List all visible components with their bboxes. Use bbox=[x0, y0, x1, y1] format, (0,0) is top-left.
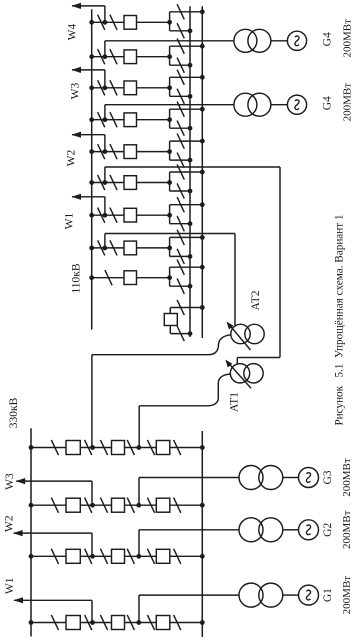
110kV bay 9 breaker bbox=[124, 271, 137, 285]
110kV bay 5 bypass disconnector bbox=[98, 144, 105, 159]
110kV bay 4 bracket wire bbox=[169, 109, 171, 128]
110kV bus-coupler breaker bbox=[164, 314, 177, 326]
svg-text:G1: G1 bbox=[322, 588, 334, 602]
110kV bay 9 wire bbox=[92, 277, 124, 279]
G1 generator wire bbox=[283, 594, 299, 596]
AT1 330kV side wire bbox=[139, 374, 230, 406]
110kV bay 1 busbar-A disconnector branch bbox=[170, 30, 190, 32]
line W3 (330kV) wire bbox=[91, 481, 93, 505]
330kV string 4 disconnectors bbox=[51, 615, 58, 630]
110kV bay 6 bus junction bbox=[89, 180, 94, 185]
110kV bay 9 bus junction bbox=[89, 275, 94, 280]
svg-text:Рисунок 5.1 Упрощённая схем: Рисунок 5.1 Упрощённая схема. Вариант 1 bbox=[334, 214, 346, 425]
110kV bay 5 branch node bbox=[167, 149, 172, 154]
110kV bay 3 bracket wire bbox=[169, 77, 171, 96]
110kV bay 4 busbar-A disconnector branch bbox=[170, 127, 190, 129]
svg-text:200МВт: 200МВт bbox=[341, 458, 353, 497]
330kV string 3 wire bbox=[31, 555, 202, 557]
110kV bay 6 branch node bbox=[167, 180, 172, 185]
110kV bus-coupler bay wire bbox=[169, 308, 171, 334]
G3 unit wire bbox=[138, 478, 140, 506]
generator G3 bbox=[299, 468, 319, 488]
G2 unit wire bbox=[138, 530, 140, 557]
110kV bay 4 line disconnector bbox=[110, 112, 117, 127]
110kV bay 6 wire bbox=[92, 182, 124, 184]
svg-text:W3: W3 bbox=[4, 473, 16, 490]
svg-text:G3: G3 bbox=[322, 470, 334, 484]
svg-text:110кВ: 110кВ bbox=[71, 263, 83, 293]
110kV bay 1 bracket wire bbox=[169, 12, 171, 31]
svg-text:G4: G4 bbox=[321, 96, 333, 110]
330kV string 3 bus junctions bbox=[29, 554, 34, 559]
110kV bay 4 tap node bbox=[103, 117, 108, 122]
line W1 (330kV) wire bbox=[91, 600, 93, 622]
110kV bay 2 bracket wire bbox=[169, 46, 171, 65]
G1 unit wire bbox=[138, 595, 140, 622]
110kV bay 6 busbar-B disconnector branch bbox=[170, 171, 203, 173]
110kV bay 7 tap node bbox=[103, 213, 108, 218]
110kV bay 9 busbar-A disconnector branch bbox=[170, 285, 190, 287]
AT2 110kV feeder wire bbox=[104, 234, 106, 248]
G3 generator wire bbox=[283, 477, 299, 479]
110kV bay 8 bracket wire bbox=[169, 237, 171, 256]
110kV bay 4 branch node bbox=[167, 117, 172, 122]
110kV bay 4 busbar-B disconnector branch bbox=[170, 108, 203, 110]
line W1 (110kV) wire bbox=[104, 197, 106, 215]
110kV bay 4 wire bbox=[92, 119, 124, 121]
110kV bay 9 disconnector bbox=[105, 270, 112, 285]
line W3 (330kV) arrow bbox=[16, 478, 26, 484]
110kV bay 8 breaker bbox=[124, 241, 137, 255]
110kV bay 3 wire bbox=[92, 87, 124, 89]
autotransformer AT1 bbox=[230, 364, 249, 383]
line W4 (110kV) wire bbox=[104, 6, 106, 22]
110kV bay 8 line disconnector bbox=[110, 240, 117, 255]
110kV bay 9 bracket wire bbox=[169, 267, 171, 286]
110kV bay 8 busbar-A disconnector branch bbox=[170, 255, 190, 257]
line W2 (330kV) wire bbox=[91, 533, 93, 556]
110kV bay 2 line disconnector bbox=[110, 49, 117, 64]
110kV bay 6 breaker bbox=[124, 176, 137, 190]
G4 unit transformer bbox=[234, 93, 257, 116]
G1 unit transformer bbox=[239, 583, 263, 607]
svg-text:200МВт: 200МВт bbox=[341, 510, 353, 549]
110kV bus-coupler busbar-A branch bbox=[170, 333, 190, 335]
AT1 regulation arrow bbox=[227, 362, 251, 389]
110kV bay 1 bypass disconnector bbox=[98, 15, 105, 30]
svg-text:W1: W1 bbox=[64, 212, 76, 229]
svg-text:W2: W2 bbox=[3, 515, 15, 532]
110kV busbar B bbox=[201, 6, 203, 338]
110kV bay 7 wire bbox=[92, 214, 124, 216]
110kV bay 7 bus junction bbox=[89, 213, 94, 218]
110kV bay 2 bus junction bbox=[89, 54, 94, 59]
svg-text:200МВт: 200МВт bbox=[342, 83, 353, 122]
AT1 110kV feeder wire bbox=[104, 167, 106, 183]
110kV bay 4 bus junction bbox=[89, 117, 94, 122]
110kV bay 1 wire bbox=[92, 21, 124, 23]
110kV bay 1 bus junction bbox=[89, 20, 94, 25]
110kV bay 9 busbar-B disconnector branch bbox=[170, 266, 203, 268]
110kV bay 3 bus junction bbox=[89, 85, 94, 90]
line W3 (110kV) wire bbox=[104, 70, 106, 88]
G4 unit transformer bbox=[234, 29, 257, 52]
line W4 (110kV) arrow bbox=[72, 3, 82, 9]
330kV string 1 bus junctions bbox=[29, 445, 34, 450]
110kV bay 4 breaker bbox=[124, 113, 137, 127]
AT2 330kV side wire bbox=[92, 335, 231, 355]
110kV bay 3 branch node bbox=[167, 85, 172, 90]
110kV bay 8 busbar-B disconnector branch bbox=[170, 236, 203, 238]
line W1 (330kV) arrow bbox=[14, 597, 24, 603]
110kV busbar A bbox=[189, 6, 191, 337]
330kV string 3 tap nodes bbox=[90, 554, 95, 559]
110kV bay 6 busbar-A disconnector branch bbox=[170, 190, 190, 192]
330kV string 2 tap nodes bbox=[90, 503, 95, 508]
110kV bay 8 bypass disconnector bbox=[98, 240, 105, 255]
110kV bay 9 branch node bbox=[167, 275, 172, 280]
110kV bay 5 bus junction bbox=[89, 149, 94, 154]
110kV bay 7 branch node bbox=[167, 213, 172, 218]
110kV bay 1 line disconnector bbox=[110, 15, 117, 30]
110kV bay 3 busbar-A disconnector branch bbox=[170, 95, 190, 97]
110kV bay 5 breaker bbox=[124, 145, 137, 159]
330kV busbar 2 bbox=[201, 431, 203, 637]
line W1 (110kV) arrow bbox=[72, 194, 82, 200]
110kV bay 8 bus junction bbox=[89, 246, 94, 251]
svg-text:W4: W4 bbox=[67, 23, 79, 40]
svg-text:W1: W1 bbox=[4, 577, 16, 594]
G4 unit wire bbox=[104, 105, 106, 120]
110kV bay 4 bypass disconnector bbox=[98, 112, 105, 127]
110kV bay 1 tap node bbox=[103, 20, 108, 25]
110kV bay 3 bypass disconnector bbox=[98, 80, 105, 95]
110kV bay 6 bracket wire bbox=[169, 172, 171, 191]
110kV bay 6 line disconnector bbox=[110, 175, 117, 190]
110kV bay 5 tap node bbox=[103, 149, 108, 154]
110kV bay 1 branch node bbox=[167, 20, 172, 25]
110kV bay 6 bypass disconnector bbox=[98, 175, 105, 190]
330kV string 2 wire bbox=[31, 504, 202, 506]
110kV bay 8 branch node bbox=[167, 246, 172, 251]
330kV string 4 tap nodes bbox=[90, 620, 95, 625]
G4 unit generator wire bbox=[271, 40, 288, 42]
110kV bay 2 tap node bbox=[103, 54, 108, 59]
autotransformer AT2 bbox=[231, 324, 250, 343]
110kV bay 2 wire bbox=[92, 56, 124, 58]
330kV string 4 bus junctions bbox=[29, 620, 34, 625]
330kV string 3 disconnectors bbox=[51, 549, 58, 564]
generator G2 bbox=[299, 520, 319, 540]
110kV bay 5 busbar-A disconnector branch bbox=[170, 159, 190, 161]
330kV string 3 breakers bbox=[66, 549, 80, 563]
G4 unit wire bbox=[104, 41, 106, 57]
AT2 regulation arrow bbox=[228, 324, 250, 350]
generator G1 bbox=[299, 585, 319, 605]
line W2 (330kV) arrow bbox=[13, 530, 23, 536]
G4 unit generator wire bbox=[271, 104, 288, 106]
svg-text:G2: G2 bbox=[322, 523, 334, 537]
svg-text:330кВ: 330кВ bbox=[8, 397, 20, 428]
330kV string 4 wire bbox=[31, 622, 202, 624]
svg-text:200МВт: 200МВт bbox=[341, 576, 353, 615]
110kV bay 1 busbar-B disconnector branch bbox=[170, 11, 203, 13]
330kV string 1 tap nodes bbox=[90, 445, 95, 450]
110kV bay 8 wire bbox=[92, 247, 124, 249]
svg-text:200МВт: 200МВт bbox=[342, 19, 353, 58]
110kV bay 5 wire bbox=[92, 151, 124, 153]
G2 unit transformer bbox=[239, 518, 263, 542]
line W3 (110kV) arrow bbox=[72, 67, 82, 73]
generator G4 bbox=[287, 31, 306, 50]
110kV bay 8 tap node bbox=[103, 246, 108, 251]
110kV bay 5 busbar-B disconnector branch bbox=[170, 140, 203, 142]
330kV busbar 1 bbox=[30, 428, 32, 636]
110kV bay 7 bypass disconnector bbox=[98, 208, 105, 223]
330kV string 2 bus junctions bbox=[29, 503, 34, 508]
330kV string 1 disconnectors bbox=[51, 440, 58, 455]
110kV bay 3 line disconnector bbox=[110, 80, 117, 95]
110kV bay 2 bypass disconnector bbox=[98, 49, 105, 64]
svg-text:АТ1: АТ1 bbox=[229, 392, 241, 412]
110kV bay 3 tap node bbox=[103, 85, 108, 90]
110kV bay 3 breaker bbox=[124, 81, 137, 95]
110kV bay 6 tap node bbox=[103, 180, 108, 185]
110kV bypass busbar bbox=[91, 9, 93, 329]
svg-text:W3: W3 bbox=[70, 82, 82, 99]
330kV string 1 breakers bbox=[66, 441, 80, 455]
G3 unit transformer bbox=[239, 466, 263, 490]
110kV bay 5 line disconnector bbox=[110, 144, 117, 159]
330kV string 2 disconnectors bbox=[51, 498, 58, 513]
110kV bay 7 line disconnector bbox=[110, 208, 117, 223]
110kV bay 7 bracket wire bbox=[169, 205, 171, 224]
110kV bay 7 busbar-B disconnector branch bbox=[170, 204, 203, 206]
110kV bay 2 breaker bbox=[124, 50, 137, 64]
110kV bus-coupler busbar-B branch bbox=[170, 307, 202, 309]
svg-text:АТ2: АТ2 bbox=[250, 290, 262, 310]
110kV bay 1 breaker bbox=[124, 16, 137, 30]
line W2 (110kV) wire bbox=[104, 135, 106, 152]
110kV bay 5 bracket wire bbox=[169, 141, 171, 160]
110kV bay 2 busbar-B disconnector branch bbox=[170, 45, 203, 47]
svg-text:W2: W2 bbox=[66, 149, 78, 166]
110kV bay 2 busbar-A disconnector branch bbox=[170, 64, 190, 66]
330kV string 4 breakers bbox=[66, 616, 80, 630]
110kV bay 7 breaker bbox=[124, 208, 137, 222]
generator G4 bbox=[287, 95, 306, 114]
svg-text:G4: G4 bbox=[321, 32, 333, 46]
110kV bay 3 busbar-B disconnector branch bbox=[170, 76, 203, 78]
330kV string 2 breakers bbox=[66, 498, 80, 512]
G2 generator wire bbox=[283, 529, 299, 531]
110kV bay 7 busbar-A disconnector branch bbox=[170, 223, 190, 225]
330kV string 1 wire bbox=[31, 447, 202, 449]
line W2 (110kV) arrow bbox=[72, 132, 82, 138]
110kV bay 2 branch node bbox=[167, 54, 172, 59]
